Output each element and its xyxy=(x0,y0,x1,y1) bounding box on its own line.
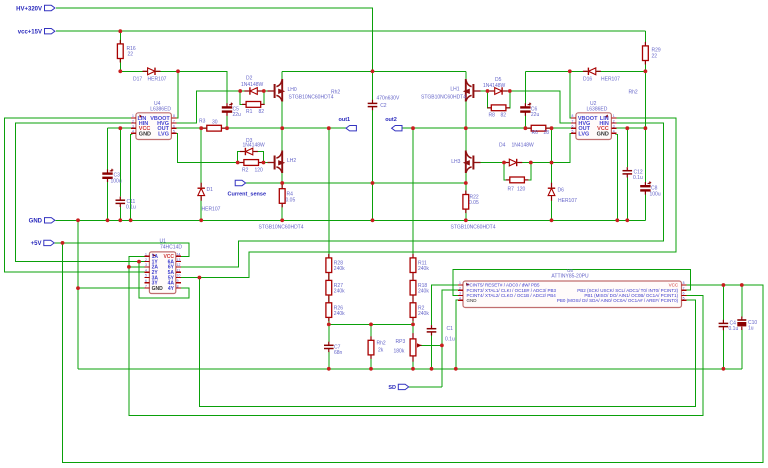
wire MCU GND xyxy=(456,300,458,369)
resistor R4 xyxy=(279,185,295,208)
svg-text:240k: 240k xyxy=(334,311,345,317)
svg-text:2: 2 xyxy=(459,286,461,290)
capacitor C6 xyxy=(520,103,539,118)
node out1 divider tap xyxy=(327,126,331,130)
svg-text:4: 4 xyxy=(613,130,615,134)
svg-text:180k: 180k xyxy=(394,349,405,355)
svg-text:3: 3 xyxy=(613,124,615,128)
resistor R7 xyxy=(506,177,529,193)
svg-text:0.1u: 0.1u xyxy=(445,337,455,343)
node LH1/LH3 phase xyxy=(464,126,468,130)
svg-text:240k: 240k xyxy=(418,289,429,295)
svg-text:D2: D2 xyxy=(246,76,253,82)
svg-text:Current_sense: Current_sense xyxy=(228,192,267,198)
node D3 split left xyxy=(236,161,240,165)
node LH2 emitter sense xyxy=(280,181,284,185)
svg-text:L6386ED: L6386ED xyxy=(150,106,171,112)
node LH3 emitter sense xyxy=(464,181,468,185)
node MCU VCC C4 xyxy=(722,283,726,287)
node U2 VCC junction xyxy=(625,126,629,130)
wire C7 branch xyxy=(328,324,330,341)
node gnd2 C7 xyxy=(327,367,331,371)
transistor LH0 xyxy=(268,79,334,102)
svg-text:ATTINY85-20PU: ATTINY85-20PU xyxy=(551,274,589,280)
capacitor C5 xyxy=(222,103,241,118)
svg-text:240k: 240k xyxy=(334,289,345,295)
svg-text:U5: U5 xyxy=(567,268,573,273)
wire C3 to ground xyxy=(107,182,109,220)
svg-text:7: 7 xyxy=(145,284,147,288)
svg-text:3: 3 xyxy=(459,292,461,296)
wire U1 2A tie xyxy=(129,266,145,268)
svg-text:2k: 2k xyxy=(378,348,384,354)
svg-text:C2: C2 xyxy=(380,103,387,109)
svg-text:8: 8 xyxy=(683,281,685,285)
svg-text:82: 82 xyxy=(501,113,507,119)
node D4 split right xyxy=(529,161,533,165)
svg-text:0.1u: 0.1u xyxy=(126,205,136,211)
wire C11 to ground xyxy=(119,207,121,220)
wire C6 bootstrap feed xyxy=(524,71,526,104)
wire LH1 gate line xyxy=(481,91,576,123)
svg-text:STGB10NC60HDT4: STGB10NC60HDT4 xyxy=(289,95,334,101)
svg-text:4Y: 4Y xyxy=(168,286,175,292)
wire +5V distribution to MCU VCC xyxy=(63,243,763,462)
svg-text:D6: D6 xyxy=(558,188,565,194)
svg-text:3: 3 xyxy=(132,124,134,128)
svg-text:5: 5 xyxy=(173,130,175,134)
node D2 anode split xyxy=(238,89,242,93)
resistor R8 xyxy=(487,105,510,119)
wire U1 GND pin xyxy=(78,287,144,289)
node D5 split right xyxy=(508,89,512,93)
svg-text:22: 22 xyxy=(128,52,134,58)
svg-text:HER107: HER107 xyxy=(558,198,577,204)
svg-text:28: 28 xyxy=(544,130,550,136)
svg-text:R3: R3 xyxy=(199,119,206,125)
wire out2 divider riser xyxy=(412,128,414,324)
svg-text:RP3: RP3 xyxy=(396,339,406,345)
resistor R11 xyxy=(410,254,429,277)
wire C12 to ground xyxy=(626,177,628,220)
svg-text:82: 82 xyxy=(259,109,265,115)
svg-text:GND: GND xyxy=(152,286,164,292)
net flag Current_sense xyxy=(228,180,267,197)
resistor R28 xyxy=(326,254,345,277)
svg-text:R6: R6 xyxy=(532,130,539,136)
net flag vcc+15V xyxy=(18,29,55,36)
wire U2 GND xyxy=(613,133,617,220)
wire LH1 collector xyxy=(465,71,467,83)
node divider bottom left xyxy=(327,323,331,327)
node U1 GND junction xyxy=(76,286,80,290)
wire C4 branch xyxy=(722,285,724,320)
diode D16 xyxy=(583,68,620,83)
wire U2 VCC xyxy=(616,127,645,129)
wire D6 branch xyxy=(551,128,553,220)
svg-text:D1: D1 xyxy=(207,187,214,193)
svg-text:4: 4 xyxy=(459,296,461,300)
node gnd R22 xyxy=(464,218,468,222)
resistor R2 xyxy=(240,160,263,174)
wire U2 LVG to gate network xyxy=(481,133,576,162)
svg-text:6: 6 xyxy=(145,279,147,283)
node gnd C2 xyxy=(371,218,375,222)
svg-text:0.05: 0.05 xyxy=(286,198,296,204)
wire LH2 collector xyxy=(281,128,283,154)
wire +5V rail to U1 VCC xyxy=(54,243,189,256)
svg-text:HER107: HER107 xyxy=(202,207,221,213)
wire vcc+15V rail xyxy=(56,30,645,32)
wire C10 to ground xyxy=(741,329,743,369)
svg-text:470n630V: 470n630V xyxy=(377,95,400,101)
resistor R3 xyxy=(199,119,225,132)
node gnd C11 xyxy=(118,218,122,222)
wire U4 OUT / out1 line xyxy=(176,127,346,129)
resistor R1 xyxy=(242,102,265,116)
wire MCU VCC line xyxy=(687,284,763,286)
svg-text:LH1: LH1 xyxy=(450,86,459,92)
svg-text:1: 1 xyxy=(145,253,147,257)
wire R2 loop xyxy=(238,152,264,163)
node out1 line D1 tap xyxy=(199,126,203,130)
svg-text:vcc+15V: vcc+15V xyxy=(18,30,42,36)
diode D4 xyxy=(499,143,534,167)
svg-text:22u: 22u xyxy=(531,112,540,118)
svg-text:12: 12 xyxy=(177,263,181,267)
svg-text:1N4148W: 1N4148W xyxy=(483,83,506,89)
node gnd C3 xyxy=(106,218,110,222)
wire U1 5Y to PB0 xyxy=(199,278,695,407)
wire ground bus top xyxy=(56,219,646,221)
node D2 cathode split xyxy=(262,89,266,93)
wire D3 gate line xyxy=(238,162,268,164)
svg-text:2: 2 xyxy=(145,258,147,262)
resistor R16 xyxy=(117,40,135,63)
svg-text:C1: C1 xyxy=(447,326,454,332)
svg-text:out1: out1 xyxy=(339,117,351,123)
wire MCU RESET to C1 xyxy=(432,285,459,325)
wire HV+320V rail xyxy=(56,8,373,71)
node wiper junction xyxy=(440,344,444,348)
node gnd2 MCU xyxy=(454,367,458,371)
wire D16 line xyxy=(525,70,645,72)
net flag GND xyxy=(29,218,55,225)
wire VBOOT U4 riser xyxy=(176,71,178,118)
node D6 gate line junction xyxy=(550,161,554,165)
svg-text:5: 5 xyxy=(572,130,574,134)
wire D17 bootstrap feed xyxy=(120,71,227,104)
node +5V branch xyxy=(61,241,65,245)
wire R29 to U2 VCC to C8 xyxy=(644,31,646,182)
svg-text:HV+320V: HV+320V xyxy=(16,6,42,12)
resistor R29 xyxy=(643,42,661,65)
svg-text:1: 1 xyxy=(132,114,134,118)
wire C2 snubber xyxy=(372,71,374,100)
node VBOOT right xyxy=(568,69,572,73)
capacitor C2 xyxy=(368,95,400,110)
node U1 1Y junction xyxy=(137,260,141,264)
op-amp U4 gate driver L6386ED xyxy=(131,101,177,140)
node gnd2 C4 xyxy=(722,367,726,371)
wire C12 branch xyxy=(626,128,628,167)
wire C10 branch xyxy=(741,285,743,318)
svg-text:R2: R2 xyxy=(242,168,249,174)
wire LH2 emitter xyxy=(281,171,283,184)
node divider bottom mid xyxy=(369,323,373,327)
node R29/D16 junction xyxy=(644,69,648,73)
wire MCU XTAL2 frame to PB2 xyxy=(453,270,691,296)
wire C3 branch xyxy=(107,128,109,169)
svg-text:6: 6 xyxy=(683,292,685,296)
svg-text:120: 120 xyxy=(255,168,264,174)
node sense/C2 crossing xyxy=(371,181,375,185)
svg-text:D4: D4 xyxy=(499,143,506,149)
svg-text:100u: 100u xyxy=(650,192,661,198)
resistor R27 xyxy=(326,276,345,299)
svg-text:5: 5 xyxy=(683,296,685,300)
svg-text:D16: D16 xyxy=(583,77,592,83)
op-amp U2 gate driver L6386ED xyxy=(571,101,617,140)
resistor R26 xyxy=(326,299,345,322)
svg-text:L6386ED: L6386ED xyxy=(587,106,608,112)
svg-text:STGB10NC60HDT4: STGB10NC60HDT4 xyxy=(259,225,304,231)
svg-text:8: 8 xyxy=(572,114,574,118)
wire RP3 branch xyxy=(412,324,414,368)
node U4 VCC junction xyxy=(118,126,122,130)
wire C7 to ground xyxy=(328,351,330,368)
svg-text:PB0 (MOSI/ DI/ SDA/ AIN0/ OC0A: PB0 (MOSI/ DI/ SDA/ AIN0/ OC0A/ OC1A# / … xyxy=(557,298,679,303)
net flag +5V xyxy=(31,240,55,247)
svg-text:GND: GND xyxy=(467,298,478,303)
capacitor C8 xyxy=(640,181,661,197)
node VBOOT left xyxy=(176,69,180,73)
svg-text:Rh2: Rh2 xyxy=(377,341,386,347)
svg-text:6: 6 xyxy=(572,124,574,128)
potentiometer RP3 xyxy=(394,333,422,362)
wire R4 to ground xyxy=(281,183,283,220)
svg-text:HER107: HER107 xyxy=(148,77,167,83)
capacitor C10 xyxy=(737,317,757,332)
wire C2 to ground xyxy=(372,110,374,220)
wire D2 gate line xyxy=(240,90,267,92)
wire SD line xyxy=(408,386,442,388)
wire C5 to out xyxy=(226,115,228,129)
wire LH1 emitter xyxy=(465,99,467,128)
svg-text:4: 4 xyxy=(145,268,147,272)
svg-text:8: 8 xyxy=(173,114,175,118)
wire U4 HIN from logic xyxy=(16,123,145,262)
svg-text:Rh2: Rh2 xyxy=(629,90,638,96)
wire C1 to ground xyxy=(431,336,433,369)
node gnd U2 xyxy=(615,218,619,222)
node gnd C12 xyxy=(625,218,629,222)
svg-text:7: 7 xyxy=(173,119,175,123)
diode D1 xyxy=(198,183,221,213)
net flag out1 xyxy=(339,117,357,131)
svg-text:GND: GND xyxy=(29,219,43,225)
svg-text:7: 7 xyxy=(683,286,685,290)
svg-text:SD: SD xyxy=(388,385,396,391)
resistor R22 xyxy=(463,191,479,214)
transistor LH1 xyxy=(421,79,481,102)
capacitor C12 xyxy=(623,167,643,181)
capacitor C11 xyxy=(116,197,136,211)
svg-text:11: 11 xyxy=(177,268,181,272)
node D3 split right xyxy=(262,161,266,165)
wire HV collector bus left xyxy=(282,70,466,72)
node D17 anode xyxy=(118,69,122,73)
node divider bottom right xyxy=(411,323,415,327)
wire R16 branch xyxy=(119,31,121,71)
node gnd U1 riser xyxy=(76,218,80,222)
svg-text:1: 1 xyxy=(459,281,461,285)
node out2 divider tap xyxy=(411,126,415,130)
svg-text:STGB10NC60HDT4: STGB10NC60HDT4 xyxy=(451,225,496,231)
diode D5 xyxy=(483,77,508,95)
node gnd R4 xyxy=(280,218,284,222)
svg-text:1: 1 xyxy=(613,114,615,118)
node U1 2A junction xyxy=(127,265,131,269)
svg-text:R8: R8 xyxy=(489,113,496,119)
svg-text:7: 7 xyxy=(572,119,574,123)
transistor LH3 xyxy=(451,151,496,231)
wire divider link xyxy=(329,323,413,325)
svg-text:+5V: +5V xyxy=(31,241,42,247)
capacitor C4 xyxy=(719,320,739,332)
wire C11 branch xyxy=(119,128,121,196)
svg-text:PCINT4/ XTAL2/ CLKO / OC1B / A: PCINT4/ XTAL2/ CLKO / OC1B / ADC2/ PB4 xyxy=(467,293,557,298)
diode D2 xyxy=(241,76,264,95)
wire R1 loop xyxy=(240,91,264,104)
node gnd D1 xyxy=(199,218,203,222)
diode D6 xyxy=(548,183,577,204)
net flag HV+320V xyxy=(16,5,55,12)
net flag out2 xyxy=(385,117,402,131)
svg-text:HER107: HER107 xyxy=(601,77,620,83)
svg-text:120: 120 xyxy=(517,187,526,193)
transistor LH2 xyxy=(259,151,304,231)
diode D3 xyxy=(240,138,265,155)
node HV bus / C2 xyxy=(371,69,375,73)
svg-text:1N4148W: 1N4148W xyxy=(241,82,264,88)
wire U4 GND xyxy=(131,133,134,220)
svg-text:0.1u: 0.1u xyxy=(729,326,739,332)
net flag SD xyxy=(388,384,408,391)
node D4 split left xyxy=(502,161,506,165)
node gnd U4 xyxy=(129,218,133,222)
svg-text:9: 9 xyxy=(177,279,179,283)
resistor Rh2 xyxy=(368,336,386,359)
svg-text:4: 4 xyxy=(132,130,134,134)
node D6 tap xyxy=(550,126,554,130)
op-amp U5 microcontroller ATTINY85-20PU xyxy=(458,268,687,308)
wire U2 HIN from logic xyxy=(181,123,664,267)
resistor R18 xyxy=(410,276,429,299)
svg-text:1u: 1u xyxy=(748,326,754,332)
resistor R2b xyxy=(410,299,429,322)
svg-text:0.05: 0.05 xyxy=(469,200,479,206)
wire U1 GND riser xyxy=(77,220,79,368)
svg-text:74HC14D: 74HC14D xyxy=(160,245,182,251)
wire U4 HVG to gate network xyxy=(176,91,240,123)
svg-text:D17: D17 xyxy=(133,77,142,83)
svg-text:30: 30 xyxy=(212,120,218,126)
svg-text:LH2: LH2 xyxy=(287,158,296,164)
node gnd2 Rh2 xyxy=(369,367,373,371)
wire MCU XTAL1 to wiper and SD xyxy=(442,290,458,387)
svg-text:6: 6 xyxy=(173,124,175,128)
svg-text:3: 3 xyxy=(145,263,147,267)
svg-text:14: 14 xyxy=(177,253,181,257)
node U2 VCC rail junction xyxy=(644,126,648,130)
svg-text:0.1u: 0.1u xyxy=(633,175,643,181)
svg-text:LH3: LH3 xyxy=(451,159,460,165)
wire LH0 emitter xyxy=(281,99,283,128)
capacitor C1 xyxy=(427,325,455,342)
wire ground bus bottom xyxy=(78,368,742,370)
svg-text:22u: 22u xyxy=(233,112,242,118)
wire U4 LIN from logic xyxy=(5,118,145,272)
node LH0/LH2 phase xyxy=(280,126,284,130)
node gnd2 C1 xyxy=(430,367,434,371)
resistor R6 xyxy=(527,125,550,136)
wire LH3 collector xyxy=(465,128,467,154)
svg-text:LH0: LH0 xyxy=(288,87,297,93)
svg-text:Rh2: Rh2 xyxy=(331,90,340,96)
node U1 5Y junction xyxy=(198,276,202,280)
svg-text:5: 5 xyxy=(145,274,147,278)
wire U4 LVG to gate network xyxy=(176,133,237,162)
svg-text:LVG: LVG xyxy=(158,131,169,137)
wire C8 to ground xyxy=(644,195,646,221)
svg-text:8: 8 xyxy=(177,284,179,288)
svg-text:22: 22 xyxy=(652,54,658,60)
wire R22 to ground xyxy=(465,183,467,220)
wire C6 to out xyxy=(524,115,526,129)
node C5 bottom xyxy=(225,126,229,130)
wire R8 loop xyxy=(488,91,510,108)
wire D1 branch xyxy=(200,128,202,220)
diode D17 xyxy=(133,68,167,83)
svg-text:10: 10 xyxy=(177,274,181,278)
wire R7 loop xyxy=(504,163,531,180)
node gnd2 RP3 xyxy=(411,367,415,371)
wire U1 1Y line xyxy=(16,261,145,263)
wire out2 line xyxy=(402,127,571,129)
wire U1 1A to PB1 xyxy=(129,256,703,415)
node D5 split left xyxy=(486,89,490,93)
wire out1 divider riser xyxy=(328,128,330,324)
svg-text:1N4148W: 1N4148W xyxy=(243,143,266,149)
svg-text:R7: R7 xyxy=(508,187,515,193)
wire LH0 collector xyxy=(281,71,283,83)
svg-text:240k: 240k xyxy=(418,266,429,272)
svg-text:100u: 100u xyxy=(111,179,122,185)
svg-text:LVG: LVG xyxy=(578,131,589,137)
wire U1 feedback loop 4Y to 1Y xyxy=(139,262,189,299)
svg-text:68n: 68n xyxy=(334,350,343,356)
wire U4 VCC xyxy=(108,127,131,129)
svg-text:2: 2 xyxy=(132,119,134,123)
capacitor C7 xyxy=(324,342,343,356)
wire RP3 wiper xyxy=(419,344,442,346)
svg-text:2: 2 xyxy=(613,119,615,123)
wire current sense line xyxy=(246,182,466,184)
wire U2 LIN from logic xyxy=(181,118,676,278)
svg-text:GND: GND xyxy=(139,131,151,137)
wire VBOOT U2 riser xyxy=(570,71,576,118)
